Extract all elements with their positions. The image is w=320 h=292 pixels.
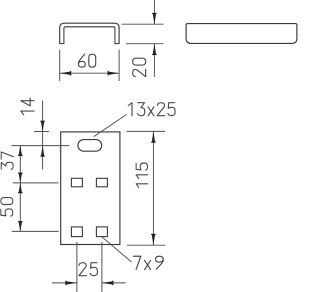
label 13x25 leader: [94, 115, 127, 137]
dimension 25 extension line right: [101, 242, 103, 292]
dimension 60 extension line right: [118, 50, 120, 82]
hole middle-right 7x9: [96, 178, 107, 187]
dimension 20 line lower segment: [153, 44, 155, 77]
dimension 14 tick at plate top: [34, 131, 49, 133]
dimension text 60: [78, 54, 95, 67]
U-profile front view outer contour: [60, 23, 119, 43]
slot centerline extension: [11, 145, 69, 147]
bottom holes centerline extension: [12, 230, 59, 232]
dimension 115 line: [152, 131, 154, 245]
arrow back bar 115 top: [151, 141, 156, 143]
dimension 115 bottom extension: [127, 244, 166, 246]
dimension 37 arrow bottom (points down): [19, 173, 22, 183]
dimension text 7x9: [134, 256, 164, 269]
dimension 115 top extension: [127, 130, 165, 132]
dimension 20 arrow top: [153, 13, 156, 24]
dimension 14 arrow upper (points down): [41, 121, 44, 132]
slot 13x25: [78, 140, 102, 152]
dimension 25 line right tail: [102, 282, 126, 284]
dimension text 25: [79, 263, 98, 276]
U-profile left leg bottom cap: [59, 43, 64, 45]
dimension 60 arrow left: [60, 72, 71, 75]
arrow back bar 37 top: [18, 154, 23, 156]
dimension 14 arrow lower (points up): [41, 146, 44, 157]
dimension text 20: [133, 58, 146, 77]
dimension 50 arrow top (points up): [19, 183, 22, 193]
arrow back bar 50 top: [18, 192, 23, 194]
dimension text 37: [1, 152, 13, 169]
arrow back bar 14 upper: [40, 120, 45, 122]
arrow back bar 20 bottom: [152, 54, 157, 56]
dimension text 14: [21, 98, 34, 115]
arrow back bar 20 top: [152, 12, 157, 14]
dimension 37/50 line: [19, 146, 21, 232]
dimension 25 line left tail: [52, 282, 77, 284]
dimension 25 arrow left (points right): [66, 281, 77, 284]
plate top view outline: [61, 132, 120, 245]
hole middle-left 7x9: [71, 178, 82, 187]
middle holes centerline extension: [13, 182, 59, 184]
arrow back bar 60 left: [70, 71, 72, 76]
arrow back bar 115 bottom: [151, 233, 156, 235]
side view bar: [186, 24, 297, 44]
dimension text 115: [136, 163, 148, 188]
dimension 60 line: [60, 72, 119, 74]
dimension 50 arrow bottom (points down): [19, 222, 22, 232]
dimension 37 arrow top (points up): [19, 146, 22, 156]
dimension text 13x25: [128, 103, 175, 116]
arrow back bar 25 left: [65, 281, 67, 286]
arrow back bar 50 bottom: [18, 221, 23, 223]
dimension 25 arrow right (points left): [102, 281, 113, 284]
dimension 60 extension line left: [59, 50, 61, 82]
arrow back bar 25 right: [112, 281, 114, 286]
label 7x9 leader: [102, 237, 132, 262]
dimension 115 arrow bottom (points down): [152, 234, 155, 245]
dimension 14 line: [42, 101, 44, 170]
U-profile front view inner contour: [64, 27, 115, 44]
dimension 60 arrow right: [108, 72, 119, 75]
dimension 20 arrow bottom: [153, 44, 156, 55]
arrow back bar 37 bottom: [18, 172, 23, 174]
arrow back bar 60 right: [107, 71, 109, 76]
dimension 20 bottom extension line: [126, 43, 164, 45]
dimension 25 extension line left: [76, 242, 78, 292]
hole bottom-left 7x9: [71, 227, 82, 237]
dimension 20 line upper segment: [153, 0, 155, 24]
dimension text 50: [1, 198, 13, 217]
dimension 115 arrow top (points up): [152, 131, 155, 142]
hole bottom-right 7x9: [96, 227, 107, 237]
U-profile right leg bottom cap: [114, 43, 119, 45]
arrow back bar 14 lower: [40, 155, 45, 157]
dimension 20 top extension line: [122, 23, 164, 25]
